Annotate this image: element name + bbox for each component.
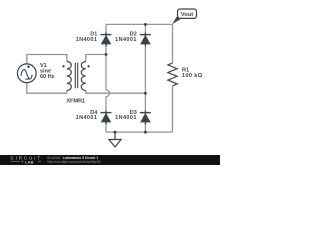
wire V1 bottom to transformer primary bottom — [27, 83, 67, 93]
svg-text:LAB: LAB — [25, 160, 34, 164]
wire transformer secondary bottom to node B — [86, 91, 146, 94]
diode D4 — [100, 111, 111, 125]
node junction dot bottom rail at D3 — [144, 131, 147, 134]
svg-text:1N4001: 1N4001 — [76, 115, 98, 121]
svg-text:Vout: Vout — [181, 12, 194, 18]
node junction dot on top rail at D2 — [144, 23, 147, 26]
node junction dot ground tee — [114, 131, 117, 134]
svg-text:1N4001: 1N4001 — [115, 37, 137, 43]
wire bottom rail (ground rail) — [106, 131, 173, 133]
watermark CircuitLab logo — [11, 155, 43, 164]
svg-text:http://circuitlab.com/c/pbd3ns: http://circuitlab.com/c/pbd3nsk49jm95 — [47, 160, 101, 164]
transformer XFMR1 windings — [67, 62, 86, 91]
resistor R1 — [168, 63, 177, 86]
node B junction dot (secondary bottom tap) — [144, 92, 147, 95]
wire left bridge column D1/D4 with hop over secondary wire — [106, 24, 109, 132]
ground — [109, 132, 121, 147]
wire right bridge column D2/D3 — [144, 24, 146, 132]
net flag Vout tail — [172, 17, 182, 24]
wire top rail (bridge output to Vout node) — [106, 23, 173, 25]
net flag Vout box — [178, 9, 197, 18]
node A junction dot (secondary top tap) — [105, 53, 108, 56]
watermark bar — [0, 155, 220, 165]
wire Vout node down to R1 top — [172, 24, 174, 63]
wire transformer secondary top to node A — [86, 55, 106, 62]
voltage source V1 (sine) — [17, 64, 36, 83]
svg-text:XFMR1: XFMR1 — [66, 99, 85, 105]
transformer phase dot primary — [62, 65, 64, 67]
wire R1 bottom down to bottom rail — [172, 86, 174, 132]
diode D2 — [140, 33, 151, 47]
svg-text:100 kΩ: 100 kΩ — [182, 73, 203, 79]
transformer XFMR1 core — [75, 63, 77, 88]
transformer phase dot secondary — [87, 65, 89, 67]
svg-text:1N4001: 1N4001 — [115, 115, 137, 121]
wire V1 top to transformer primary top — [27, 55, 67, 64]
diode D3 — [140, 111, 151, 125]
diode D1 — [100, 33, 111, 47]
svg-text:60 Hz: 60 Hz — [40, 74, 55, 80]
svg-text:1N4001: 1N4001 — [76, 37, 98, 43]
